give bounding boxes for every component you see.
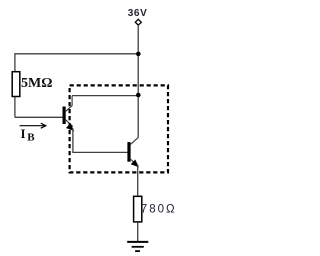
wire: Q1 emitter down and right to Q2 base	[73, 129, 128, 153]
wire: Q1 collector to rail	[72, 95, 138, 97]
wire: Q2 emitter down to R2	[137, 165, 139, 196]
wire: left vertical lower (R1 bottom)	[14, 97, 16, 117]
supply terminal (diamond)	[135, 19, 141, 25]
resistor R2 780Ω body	[134, 196, 142, 222]
current arrow IB	[20, 123, 46, 128]
svg-text:I: I	[21, 126, 26, 141]
svg-text:36V: 36V	[128, 8, 148, 19]
wire: left vertical upper (to R1 top)	[14, 53, 16, 71]
transistor Q1 (NPN)	[63, 96, 74, 130]
junction node A (rail / R1 top wire)	[136, 52, 141, 57]
dashed box around Darlington pair	[70, 85, 168, 172]
resistor R1 5MΩ body	[12, 72, 20, 97]
ground symbol	[127, 242, 148, 251]
wire: top horizontal from rail to R1	[15, 53, 139, 55]
svg-text:5MΩ: 5MΩ	[21, 76, 52, 91]
junction node B (rail / Q1 collector)	[136, 93, 141, 98]
wire: 36V vertical rail	[137, 26, 139, 138]
transistor Q2 (NPN)	[127, 138, 138, 167]
wire: R2 bottom to ground	[137, 223, 139, 242]
svg-text:B: B	[27, 131, 35, 143]
wire: horizontal to Q1 base	[15, 116, 63, 118]
svg-text:780Ω: 780Ω	[141, 204, 177, 216]
